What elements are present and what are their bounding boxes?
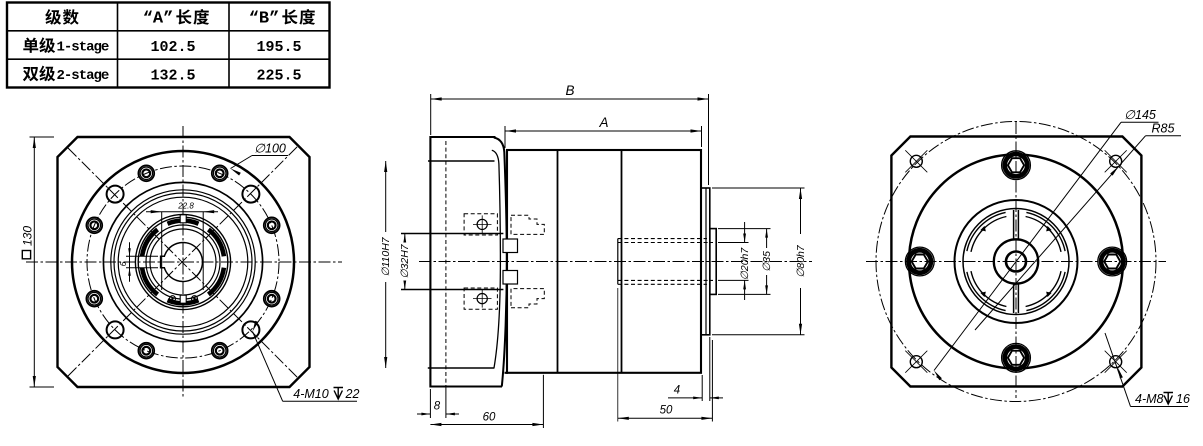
label R85	[1146, 135, 1182, 137]
dim box130	[30, 136, 55, 138]
label 4-M10 depth 22	[283, 400, 357, 402]
hidden mounting holes	[464, 214, 497, 235]
label dia145	[1121, 121, 1159, 123]
4 plain holes 45deg	[242, 321, 259, 338]
center axis	[419, 261, 812, 263]
output hollow bore hidden	[617, 239, 619, 285]
bearing retaining ring	[135, 214, 230, 309]
dim 22.8	[161, 212, 163, 290]
dim dia35	[718, 228, 771, 230]
dim 8	[429, 389, 431, 418]
R85 reference circle	[876, 122, 1156, 402]
svg-text:R85: R85	[1152, 122, 1175, 136]
label dia100	[252, 155, 288, 157]
bayonet ring	[1026, 271, 1061, 306]
boss circles	[103, 182, 262, 341]
output stub dia35	[710, 229, 716, 295]
ring lug top	[180, 215, 186, 223]
diagonal centerlines	[68, 146, 298, 376]
flange curved face	[494, 138, 507, 387]
svg-text:102.5: 102.5	[150, 39, 195, 56]
gearbox body	[507, 150, 701, 373]
svg-text:4-M10: 4-M10	[293, 387, 328, 401]
dim 50	[617, 288, 619, 422]
output boss dia80	[701, 188, 710, 335]
svg-text:8: 8	[434, 401, 441, 413]
table stage/length	[7, 3, 330, 88]
svg-text:∅20h7: ∅20h7	[739, 247, 751, 281]
svg-text:∅145: ∅145	[1124, 108, 1156, 122]
8 mounting holes	[264, 291, 280, 307]
centerlines	[182, 126, 184, 399]
dim 4	[701, 375, 703, 401]
svg-text:∅110H7: ∅110H7	[380, 236, 392, 276]
svg-text:“B”: “B”	[249, 9, 280, 28]
svg-text:∅80h7: ∅80h7	[795, 244, 807, 278]
svg-text:A: A	[598, 115, 608, 130]
4 socket head bolts	[1099, 248, 1126, 275]
flange pilot bore lines	[428, 160, 495, 162]
dim dia32H7	[404, 234, 406, 239]
dim 60	[542, 375, 544, 428]
ring lug bottom	[180, 295, 186, 303]
svg-text:2-stage: 2-stage	[57, 68, 109, 84]
outer circle	[909, 155, 1123, 369]
svg-text:195.5: 195.5	[256, 39, 301, 56]
bearing screws	[170, 296, 176, 302]
hub circle	[994, 239, 1038, 283]
inner circles	[955, 200, 1078, 323]
svg-text:130: 130	[21, 226, 35, 246]
dim dia20h7	[718, 242, 749, 244]
svg-text:60: 60	[483, 412, 496, 424]
svg-text:∅32H7: ∅32H7	[399, 243, 411, 278]
svg-text:132.5: 132.5	[150, 67, 195, 84]
svg-text:B: B	[565, 83, 574, 98]
input bore lines	[401, 233, 503, 235]
svg-text:16: 16	[1176, 392, 1190, 406]
input flange	[430, 137, 502, 387]
dim dia110H7	[385, 161, 387, 232]
dim A	[505, 130, 702, 132]
svg-text:225.5: 225.5	[256, 67, 301, 84]
center hole	[1006, 252, 1026, 272]
output bore with keyway	[161, 243, 203, 282]
svg-text:6: 6	[119, 261, 128, 266]
dim B	[431, 98, 709, 100]
svg-text:50: 50	[660, 405, 673, 417]
bolt circle dia 100	[87, 166, 279, 358]
dim 6 keyway	[126, 255, 158, 257]
clamp bosses	[503, 239, 518, 253]
4 corner holes	[910, 155, 922, 167]
label 4-M8 depth 16	[1131, 406, 1189, 408]
rear view: square flange	[891, 137, 1141, 387]
svg-text:22: 22	[345, 387, 360, 401]
centerlines	[1015, 122, 1017, 398]
svg-text:4-M8: 4-M8	[1135, 392, 1164, 406]
svg-text:22.8: 22.8	[177, 202, 194, 211]
hub vertical bars	[1013, 210, 1015, 239]
svg-text:∅35: ∅35	[761, 251, 773, 272]
svg-text:∅100: ∅100	[254, 142, 286, 156]
dim dia80h7	[712, 187, 805, 189]
hidden collar profile	[511, 215, 544, 234]
svg-text:1-stage: 1-stage	[57, 40, 109, 56]
svg-text:4: 4	[674, 385, 680, 397]
front view: square flange outline	[58, 137, 310, 387]
outer flange circle	[72, 151, 294, 373]
svg-text:“A”: “A”	[143, 9, 174, 28]
